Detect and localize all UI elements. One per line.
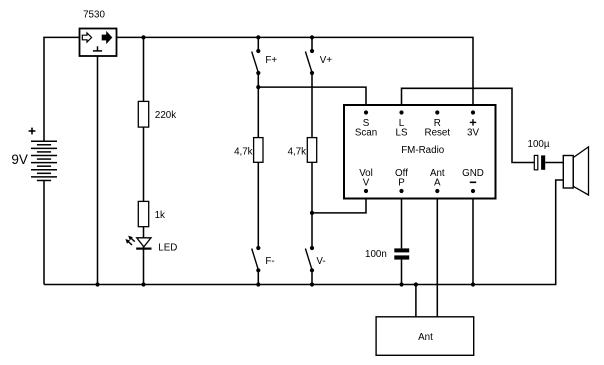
wire V+ top — [311, 37, 313, 51]
LED light arrows — [125, 236, 134, 245]
capacitor C2 100u — [534, 155, 545, 169]
junction dot Vol at V+ column — [310, 211, 314, 215]
junction dot bottom bus at antenna — [414, 282, 418, 286]
svg-text:P: P — [398, 178, 405, 189]
svg-text:3V: 3V — [467, 128, 479, 139]
switch S3 F- — [252, 246, 261, 273]
wire F- to bottom bus — [257, 270, 259, 284]
junction dot bottom bus at V- — [310, 282, 314, 286]
battery plus sign — [29, 128, 36, 135]
svg-text:4,7k: 4,7k — [288, 147, 307, 158]
junction dot bottom bus at F- — [256, 282, 260, 286]
svg-text:220k: 220k — [155, 110, 176, 121]
wire Ant pin to antenna box — [436, 191, 438, 317]
resistor R4 1k — [138, 201, 148, 226]
resistor R3 4,7k — [307, 138, 316, 163]
svg-text:V+: V+ — [320, 55, 333, 66]
switch S1 F+ — [252, 49, 261, 75]
pin Ant A — [430, 168, 445, 193]
wire top bus right (7530 output to + pin corner) — [117, 37, 474, 112]
pin Vol — [359, 168, 373, 193]
svg-text:F-: F- — [265, 256, 274, 267]
wire F+ bottom to node S — [257, 73, 259, 87]
regulator U2 7530 box — [80, 29, 117, 57]
svg-text:Ant: Ant — [418, 332, 433, 343]
svg-text:V: V — [363, 178, 370, 189]
wire GND pin to bottom bus — [472, 191, 474, 285]
wire V+ bottom to resistor R3 — [311, 73, 313, 138]
wire top bus left (battery to 7530 input) — [44, 37, 80, 141]
svg-text:7530: 7530 — [83, 10, 105, 21]
regulator output arrow (filled) — [102, 32, 111, 42]
switch S2 V+ — [305, 49, 314, 75]
svg-text:LS: LS — [396, 128, 408, 139]
svg-text:9V: 9V — [11, 152, 28, 167]
wire LED to bottom bus — [143, 238, 145, 285]
wire 220k column top — [143, 37, 145, 101]
junction dot bottom bus at 100n — [399, 282, 403, 286]
wire bottom bus — [44, 180, 563, 285]
pin plus 3V — [467, 110, 479, 138]
wire capacitor C2 to speaker — [545, 162, 563, 164]
junction dot top bus at F+ — [256, 35, 260, 39]
regulator ground symbol — [93, 46, 102, 51]
wire R3 to V- switch — [311, 162, 313, 248]
svg-text:100n: 100n — [365, 249, 387, 260]
wire 1k to LED — [143, 227, 145, 238]
wire 7530 ground to bottom bus — [97, 56, 99, 285]
pin S — [355, 110, 377, 138]
svg-text:4,7k: 4,7k — [234, 147, 253, 158]
svg-text:Scan: Scan — [355, 128, 377, 139]
svg-text:Reset: Reset — [425, 128, 451, 139]
speaker LS1 — [563, 147, 588, 195]
pin L — [396, 110, 408, 138]
wire node S to Scan pin — [258, 87, 366, 112]
wire V- to bottom bus — [311, 270, 313, 284]
IC U1 FM-Radio box — [344, 105, 496, 199]
wire R2 to F- switch — [257, 162, 259, 248]
svg-text:V-: V- — [316, 256, 325, 267]
wire bottom bus to antenna box — [415, 285, 417, 317]
junction dot node S — [256, 85, 260, 89]
svg-text:GND: GND — [462, 168, 484, 179]
svg-text:F+: F+ — [265, 55, 277, 66]
regulator input arrow (outline) — [82, 33, 91, 42]
wire Off pin to capacitor C1 — [401, 191, 403, 248]
junction dot bottom bus at GND — [471, 282, 475, 286]
antenna box Ant — [376, 317, 474, 356]
resistor R1 220k — [138, 101, 148, 127]
wire F+ top — [257, 37, 259, 51]
LED D1 — [136, 238, 151, 249]
junction dot top bus at V+ — [310, 35, 314, 39]
pin GND minus — [462, 168, 484, 193]
junction dot bottom bus at 7530 ground — [95, 282, 99, 286]
pin R — [425, 110, 451, 138]
svg-text:100µ: 100µ — [528, 139, 550, 150]
pin Off P — [395, 168, 408, 193]
capacitor C1 100n — [394, 248, 409, 259]
wire Vol pin to V+ column — [312, 191, 366, 213]
resistor R2 4,7k — [254, 138, 263, 163]
switch S4 V- — [305, 246, 314, 273]
svg-text:A: A — [434, 178, 441, 189]
svg-text:FM-Radio: FM-Radio — [401, 145, 445, 156]
wire L pin to capacitor C2 — [402, 88, 535, 162]
wire battery negative to bottom bus — [43, 181, 45, 285]
svg-text:LED: LED — [158, 242, 177, 253]
junction dot bottom bus at LED — [141, 282, 145, 286]
wire capacitor C1 to bottom bus — [401, 260, 403, 285]
svg-text:1k: 1k — [155, 210, 165, 221]
wire 220k to 1k — [143, 127, 145, 201]
wire node S to resistor R2 — [257, 87, 259, 138]
battery BT1 9V — [31, 141, 57, 180]
junction dot top bus at 220k — [141, 35, 145, 39]
